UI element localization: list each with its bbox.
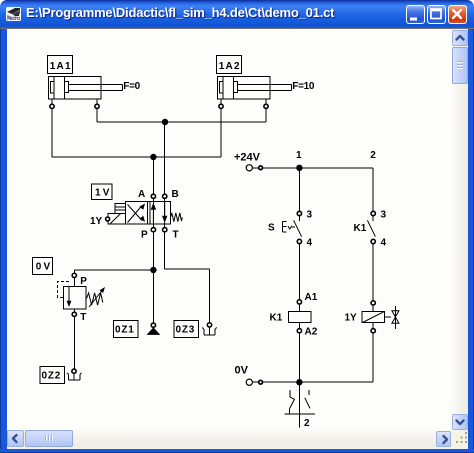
svg-text:3: 3	[381, 210, 387, 221]
svg-text:T: T	[173, 230, 179, 241]
svg-text:2: 2	[304, 418, 310, 429]
svg-text:F=0: F=0	[123, 81, 140, 92]
svg-text:FESTO: FESTO	[7, 16, 20, 21]
svg-text:1A1: 1A1	[50, 61, 72, 72]
svg-text:B: B	[172, 189, 179, 200]
svg-text:0Z3: 0Z3	[176, 325, 196, 336]
svg-text:A1: A1	[305, 292, 318, 303]
svg-text:T: T	[80, 312, 86, 323]
svg-text:K1: K1	[270, 313, 283, 324]
svg-text:1: 1	[296, 150, 302, 161]
svg-text:2: 2	[370, 150, 376, 161]
svg-text:0V: 0V	[235, 365, 249, 377]
svg-text:1Y: 1Y	[90, 216, 103, 227]
svg-text:1A2: 1A2	[219, 61, 241, 72]
svg-text:A2: A2	[305, 327, 318, 338]
svg-text:P: P	[80, 276, 87, 287]
svg-text:A: A	[138, 189, 145, 200]
svg-text:0V: 0V	[36, 262, 53, 273]
svg-text:1Y: 1Y	[345, 313, 358, 324]
svg-text:0Z1: 0Z1	[115, 325, 135, 336]
svg-text:K1: K1	[354, 223, 367, 234]
svg-text:4: 4	[307, 238, 313, 249]
svg-text:1V: 1V	[95, 188, 112, 199]
svg-text:4: 4	[381, 238, 387, 249]
svg-text:P: P	[141, 230, 148, 241]
svg-text:0Z2: 0Z2	[42, 371, 62, 382]
svg-text:+24V: +24V	[234, 152, 261, 164]
svg-text:3: 3	[307, 210, 313, 221]
svg-text:S: S	[268, 223, 275, 234]
svg-text:F=10: F=10	[292, 81, 315, 92]
